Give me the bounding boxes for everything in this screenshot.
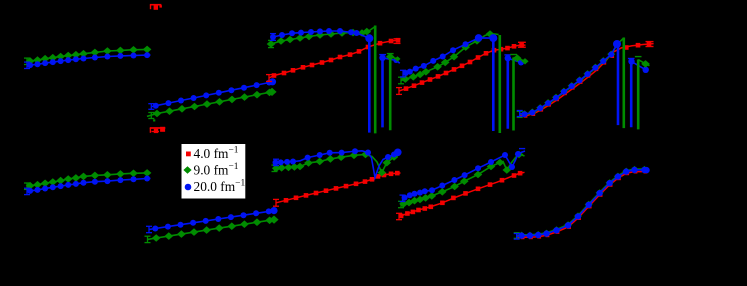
legend box [181,144,246,200]
legend entry 9.0 fm-1 [194,162,239,178]
legend entry 4.0 fm-1 [194,146,239,162]
subplot T3 green spike [370,26,376,134]
subplot T5 green curve [517,38,624,118]
subplot T5 green recovery [635,57,650,130]
subplot B2 green curve [145,216,279,243]
subplot T4 blue spike [492,38,495,131]
subplot T3 green recovery [386,53,401,130]
subplot B1 blue curve [24,176,151,195]
subplot T4 blue recovery [504,55,524,129]
subplot B3 blue curve [273,148,402,177]
subplot T5 blue recovery [628,58,649,127]
subplot B1 green curve [24,169,151,189]
legend red square marker [186,152,191,157]
subplot T4 blue curve [400,34,497,77]
subplot T5 green spike [622,38,625,129]
subplot B2 blue curve [146,207,278,233]
subplot T1 blue curve 20.0 fm-1 [24,52,151,68]
subplot T5 blue curve [517,40,621,117]
subplot B3 green curve [272,151,400,177]
subplot T3 red curve [266,38,401,82]
subplot T4 green recovery [510,54,528,130]
subplot B3 red curve [273,171,401,206]
subplot B4 red curve [396,171,525,220]
subplot T3 green curve [267,28,371,48]
subplot T2 green curve [147,88,277,119]
subplot T4 green curve [398,30,499,84]
subplot T2 red fragment top edge [150,5,162,10]
stray green dot [153,119,155,121]
subplot B4 blue curve [400,149,526,202]
subplot T5 red curve [520,42,654,118]
subplot T2 red fragment bottom edge [150,127,166,133]
legend blue circle marker [185,184,192,191]
legend green diamond marker [183,166,191,173]
subplot B4 green curve [398,151,525,208]
subplot T5 blue spike [617,44,620,125]
subplot B5 green curve [514,166,649,239]
subplot B5 blue curve [514,167,650,239]
subplot T2 blue curve [148,78,276,109]
subplot T3 blue curve [270,28,373,42]
subplot T1 green curve 9.0 fm-1 [24,46,151,65]
subplot T4 green spike [498,35,501,133]
subplot T3 blue recovery [379,55,400,128]
subplot T4 red curve [396,42,526,94]
subplot B5 red curve [517,170,648,240]
legend entry 20.0 fm-1 [194,179,246,195]
subplot T3 blue spike [368,38,371,132]
